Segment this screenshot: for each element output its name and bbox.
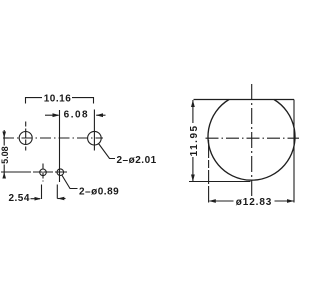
svg-text:ø12.83: ø12.83 bbox=[236, 197, 273, 208]
svg-text:10.16: 10.16 bbox=[44, 93, 72, 104]
svg-text:2.54: 2.54 bbox=[8, 193, 29, 204]
svg-text:2–ø2.01: 2–ø2.01 bbox=[117, 155, 157, 166]
svg-text:6.08: 6.08 bbox=[64, 110, 89, 121]
svg-text:5.08: 5.08 bbox=[0, 146, 10, 164]
svg-text:11.95: 11.95 bbox=[189, 124, 200, 156]
svg-text:2–ø0.89: 2–ø0.89 bbox=[79, 186, 119, 197]
